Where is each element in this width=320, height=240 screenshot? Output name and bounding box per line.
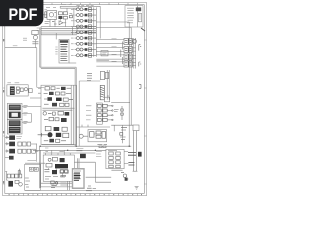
riser wires from badge area xyxy=(40,28,76,147)
pump motor M2 xyxy=(8,181,13,187)
motor starter Q13 xyxy=(71,25,96,29)
wire table to rail xyxy=(69,62,76,64)
fuse F5 xyxy=(18,169,20,178)
valve unit Y1 cluster xyxy=(79,130,106,142)
wires TR1 to board xyxy=(22,107,41,123)
wire cable run xyxy=(25,162,45,164)
enclosure outline right-mid xyxy=(79,81,100,146)
meter terminal xyxy=(29,89,32,93)
wire lower right tie xyxy=(111,125,133,143)
labels left of distribution box xyxy=(96,151,102,156)
wire stair ties xyxy=(121,42,123,65)
frame zone ticks left xyxy=(3,40,5,184)
MCC bottom tie xyxy=(42,144,74,146)
drawing frame outer border xyxy=(3,3,147,196)
circle meter on block KM11 xyxy=(133,39,137,43)
lower wiring runs xyxy=(25,183,111,190)
pump pilot P2 xyxy=(15,178,30,187)
terminal strip XT3 xyxy=(7,174,22,178)
svg-text:PDF: PDF xyxy=(9,6,38,24)
auxiliary box A2 xyxy=(101,51,108,56)
wire box to bar xyxy=(111,151,128,170)
contactor block KM12 xyxy=(96,47,135,53)
generator G1 box xyxy=(47,11,57,20)
contactor block KM11 xyxy=(96,39,135,45)
frame zone ticks top xyxy=(52,3,138,5)
wire pump feed xyxy=(5,172,9,181)
TR1 secondary winding xyxy=(9,112,21,119)
CP terminals xyxy=(45,177,66,179)
REC1 stack lower xyxy=(9,127,21,133)
aux switch row xyxy=(44,117,67,122)
motor starter Q16 xyxy=(71,42,96,46)
CP feed drops xyxy=(45,150,70,176)
control transformer T2 cluster xyxy=(87,71,109,80)
frame zone ticks right xyxy=(144,40,146,184)
terminal lug xyxy=(138,152,142,157)
inset drawing marks xyxy=(74,174,81,180)
photo inset frame xyxy=(72,168,85,189)
contact block K1 aux xyxy=(58,12,67,19)
distribution box lower right xyxy=(106,149,124,168)
junction text row bottom xyxy=(87,186,96,189)
meter aux contacts xyxy=(16,87,23,93)
field device E1 rows xyxy=(76,149,85,169)
contactor block KM13 xyxy=(96,54,135,60)
IO row 1 xyxy=(97,104,107,121)
label T1 xyxy=(23,38,27,40)
pump enclosure box xyxy=(25,164,41,190)
limit switch rows xyxy=(120,128,127,140)
generator G1 symbol xyxy=(49,13,53,17)
power bus L1-L3 xyxy=(41,27,96,35)
main bus lower xyxy=(33,146,131,188)
feeder wires to right bay xyxy=(96,22,131,146)
remote IO column xyxy=(76,97,113,127)
starter column header labels xyxy=(76,4,93,6)
PDF badge xyxy=(0,0,43,26)
drawing frame inner border xyxy=(5,5,145,194)
labels above meter M1 xyxy=(7,82,19,84)
wires bottom right bay xyxy=(74,162,111,191)
fan unit FA2 row xyxy=(5,142,37,147)
main transformer TR1 box xyxy=(7,103,22,119)
rails right of contactor blocks xyxy=(134,38,136,69)
meter M1 core xyxy=(10,86,15,95)
label neutral run xyxy=(13,45,18,47)
contactor block KM14 xyxy=(96,61,135,67)
contactor KM2 row xyxy=(44,103,69,107)
CP switch S10 xyxy=(52,157,57,161)
top feeder wire xyxy=(78,6,100,38)
pressure switches S1 S2 xyxy=(29,167,38,171)
frame zone letter marks left xyxy=(3,39,4,183)
CP relay KA1 xyxy=(60,158,65,162)
aux relay row xyxy=(44,139,66,143)
meter pilot lamp xyxy=(24,88,27,91)
fuse group F3 row xyxy=(45,126,67,131)
drive unit U2 row xyxy=(38,132,69,137)
CP pilot lamp xyxy=(48,158,51,161)
motor starter Q14 xyxy=(71,31,96,35)
vertical rail right of starter column xyxy=(94,7,97,56)
wire neutral run xyxy=(5,40,44,88)
title block arrow mark xyxy=(141,28,145,31)
CP timer KT1 xyxy=(44,170,68,174)
vertical rails right bay xyxy=(107,70,109,100)
label TR1 xyxy=(23,105,27,123)
terminal strip XT2 xyxy=(100,85,104,99)
breaker QF3 row xyxy=(44,92,72,95)
schedule table PLC I/O xyxy=(55,33,76,63)
main MCC panel box xyxy=(41,85,77,144)
CP relay KA2 xyxy=(52,170,57,174)
current transformer T1 xyxy=(32,31,39,44)
title block text rows xyxy=(127,8,134,23)
outgoing cable rows left of inset xyxy=(60,170,67,185)
breaker QF2 row xyxy=(45,87,71,90)
cable bracket marks right margin xyxy=(139,45,141,89)
bus junction dots xyxy=(40,146,130,152)
cable label xyxy=(27,160,36,162)
heater E1 row xyxy=(5,149,39,154)
wire top cluster xyxy=(42,6,78,26)
contactor KM1 row xyxy=(44,97,73,101)
MCC tie wires xyxy=(42,108,74,110)
CP internal risers xyxy=(68,181,70,190)
title block xyxy=(125,6,145,31)
junction cluster J5 xyxy=(51,181,58,187)
table row index dashes xyxy=(55,47,57,54)
busbar duct right xyxy=(133,125,139,171)
IO wires right xyxy=(107,105,113,121)
motor starter Q15 xyxy=(71,36,96,40)
heater elements right xyxy=(128,153,136,165)
title block logo mark xyxy=(136,7,141,11)
REC1 stack upper xyxy=(9,120,21,126)
motor starter Q11 xyxy=(71,13,96,17)
MCC internal rails xyxy=(71,85,73,144)
thermostat B1 xyxy=(5,156,14,160)
pilot lamp H1 xyxy=(43,112,46,115)
comparator U1 xyxy=(59,21,63,25)
sensor chain right xyxy=(111,103,130,120)
wire feeds into MCC xyxy=(38,89,41,94)
title block revision box xyxy=(138,13,141,21)
overload relay F2 row xyxy=(48,111,69,115)
fan unit FA1 row xyxy=(5,135,22,140)
IO labels xyxy=(86,106,91,120)
frame zone number marks bottom xyxy=(9,194,142,195)
vertical tie wire xyxy=(36,144,38,162)
bus junction labels xyxy=(45,148,64,152)
motor starter Q18 xyxy=(71,54,96,58)
TR1 primary winding xyxy=(9,105,21,111)
breaker QF1 marks xyxy=(45,12,73,24)
CP contactor KM5 xyxy=(55,164,68,168)
ground mark xyxy=(135,186,139,189)
motor starter Q10 xyxy=(71,8,96,12)
motor starter Q12 xyxy=(71,19,96,23)
motor starter Q17 xyxy=(71,48,96,52)
control panel CP box xyxy=(43,155,74,181)
CP switch S11 xyxy=(46,163,52,167)
rectifier REC1 box xyxy=(7,119,22,134)
frame zone ticks bottom xyxy=(14,193,138,195)
supply meter M1 box xyxy=(7,85,32,96)
label cluster top xyxy=(44,5,71,10)
wire meter to main board xyxy=(30,97,41,99)
float switch LS2 xyxy=(121,172,128,180)
bus labels xyxy=(37,28,40,31)
field junction rows xyxy=(97,145,107,148)
wire column foot xyxy=(96,59,109,61)
